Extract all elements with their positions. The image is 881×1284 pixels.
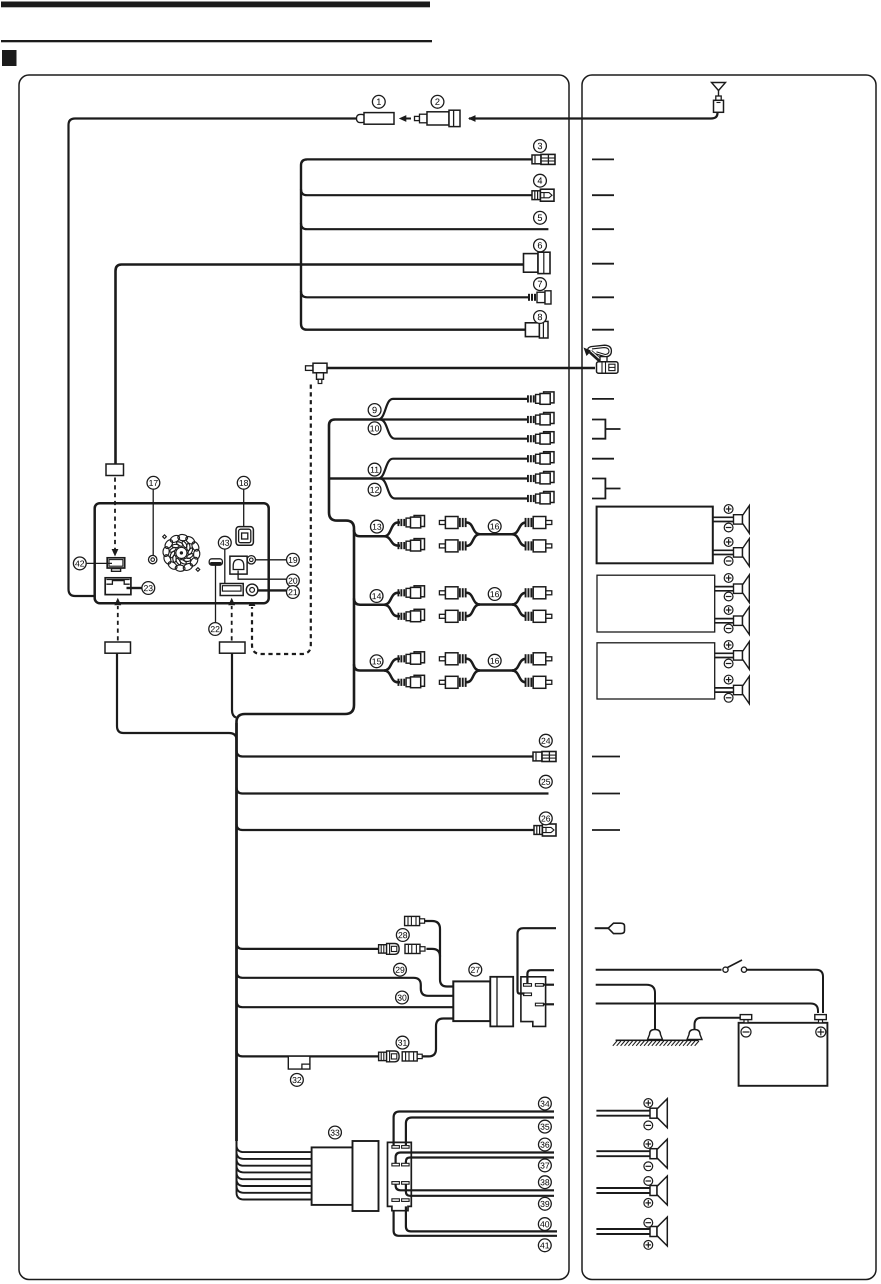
speaker polarity plus [724,574,733,583]
speaker wires [715,586,734,588]
battery [739,1023,828,1086]
connector item 6 [524,252,551,273]
wire item 41 [394,1211,557,1236]
leader 21 [258,589,286,591]
wire to battery pin [543,1003,554,1005]
svg-text:18: 18 [239,478,249,488]
speaker polarity minus [724,659,733,668]
wire item 12 lower [380,479,528,499]
label line (right panel) [592,228,614,230]
speaker wires [596,1150,650,1152]
wire item 14 [354,598,384,604]
svg-text:29: 29 [395,965,405,975]
label circle 1 [372,95,385,108]
title bar (redacted heading) [1,2,430,8]
label circle 43 [218,536,231,549]
svg-text:33: 33 [330,1128,340,1138]
wire item 10 lower [380,420,528,439]
speaker polarity - [644,1121,653,1130]
svg-text:8: 8 [537,312,542,322]
label line (right panel) [592,756,620,758]
speaker polarity + [644,1241,653,1250]
svg-text:40: 40 [540,1219,550,1229]
svg-text:12: 12 [370,485,380,495]
speaker polarity plus [724,675,733,684]
antenna wire to item 2 [469,112,718,118]
label line (right panel) [592,263,614,265]
svg-text:35: 35 [540,1122,550,1132]
label circle 27 [469,963,482,976]
label circle 4 [534,174,547,187]
speaker polarity plus [724,641,733,650]
svg-text:3: 3 [537,141,542,151]
speaker wires [713,549,734,551]
hands-free microphone clip [588,345,612,357]
wire item 28 upper lead [425,921,453,987]
battery negative wire [695,1018,742,1030]
jack 21 (aux input) [246,584,258,596]
label line row 9 [592,398,614,400]
connector item 7 [528,291,551,304]
speaker polarity minus [724,523,733,532]
label circle 19 [287,553,300,566]
label circle 31 [396,1036,409,1049]
section marker square [2,50,17,66]
ISO pin slots [392,1182,400,1185]
dashed arrow into 42 [114,478,116,550]
svg-text:5: 5 [537,213,542,223]
speaker wires [713,516,734,518]
aux extension wire to microphone connector [327,367,595,369]
microphone body [597,357,619,374]
svg-text:6: 6 [537,240,542,250]
svg-text:16: 16 [490,589,500,599]
vehicle ISO mate connector [388,1142,412,1210]
speaker polarity minus [724,557,733,566]
wire item 28 lower [237,943,380,949]
chassis ground strip [616,1039,699,1041]
SD slot 22 [209,559,222,565]
wire item 39 [406,1184,554,1195]
svg-text:20: 20 [288,576,298,586]
speaker polarity + [644,1099,653,1108]
wire from deck to antenna plug 1 [69,119,362,597]
svg-text:14: 14 [372,591,382,601]
wire item 6 (power harness lead) [116,265,525,465]
item 16 RCA extension cable [467,593,527,605]
item 2 antenna adapter plug [415,110,461,126]
svg-text:21: 21 [288,587,298,597]
leader 23 [127,587,142,589]
label circle 34 [539,1097,552,1110]
speaker [650,1176,667,1205]
ground lug 1 [648,1030,663,1040]
wire item 15 [354,664,384,670]
label circle 36 [539,1138,552,1151]
leader 22 [215,565,217,622]
connector 18 (steering remote port) [236,527,253,546]
label circle 28 [396,929,409,942]
battery feed wire [596,1004,818,1014]
speaker polarity - [644,1177,653,1186]
ground lug 2 [687,1030,702,1040]
heading underline [1,40,432,42]
label circle 20 [287,574,300,587]
wire item 13 [354,530,384,536]
label circle 37 [539,1159,552,1172]
svg-text:11: 11 [370,465,379,475]
wire item 36 [396,1153,554,1164]
label circle 14 [370,590,383,603]
wire item 35 [406,1118,554,1146]
pin slots [524,984,532,987]
label circle 16 [488,588,501,601]
speaker [650,1217,667,1246]
bracket rows 10 [592,420,621,439]
antenna feed module (above head unit) [106,464,124,476]
right panel frame [582,75,876,1280]
speaker polarity + [644,1140,653,1149]
label circle 41 [538,1239,551,1252]
wire item 34 [394,1112,554,1146]
leader 42 [87,562,112,564]
label circle 3 [534,140,547,153]
speaker polarity plus [724,538,733,547]
amplifier box 2 [597,575,715,632]
speaker polarity - [644,1162,653,1171]
svg-text:13: 13 [372,522,382,532]
battery minus symbol [741,1027,751,1037]
vehicle harness connector (mate of 27) [521,977,546,1027]
wire switch to battery plus [747,970,823,1013]
main harness trunk [235,723,238,1141]
svg-text:2: 2 [435,97,440,107]
connector item 3 [532,154,555,164]
ISO pin slots [392,1163,400,1166]
svg-text:37: 37 [540,1160,550,1170]
label circle 35 [539,1120,552,1133]
svg-text:24: 24 [541,736,551,746]
label circle 12 [368,483,381,496]
item 16 RCA extension cable [467,659,527,671]
svg-text:30: 30 [397,993,407,1003]
wire item 31 [237,1050,380,1056]
label circle 26 [539,812,552,825]
USB port 43 [220,584,243,596]
ISO connector 33 cap [353,1141,379,1211]
microphone hatched arm [591,352,602,362]
wire item 30 [237,1001,454,1007]
label circle 42 [73,557,86,570]
connector 42 (tuner plug) [107,558,125,572]
wire item 37 [406,1158,554,1164]
svg-text:16: 16 [490,521,500,531]
head unit rear chassis [95,503,269,603]
label circle 7 [534,278,547,291]
switch contacts [723,967,728,972]
rear USB extension module [105,642,131,653]
speaker [650,1099,667,1128]
svg-text:9: 9 [372,405,377,415]
ISO connector 33 body [312,1147,353,1205]
label circle 38 [539,1176,552,1189]
label line (right panel) [592,329,614,331]
dashed arrow into usb port [231,606,233,641]
label circle 25 [539,775,552,788]
speaker [734,607,750,635]
harness trunk for items 3-8 [301,159,526,329]
leader 43 [224,550,226,584]
leader 18 [243,490,245,527]
label circle 24 [539,734,552,747]
switch lever [728,960,743,968]
speaker polarity plus [724,606,733,615]
label circle 15 [370,655,383,668]
accessory tag wire [595,927,609,929]
label circle 10 [368,422,381,435]
wire from usb box down to trunk [232,653,236,718]
screw 19 [247,556,255,564]
wire item 26 [237,824,535,830]
label line (right panel) [592,158,614,160]
label line (right panel) [592,194,614,196]
wire item 9 [335,399,528,420]
speaker wires [715,652,734,654]
label circle 23 [142,582,155,595]
wire item 5 (bare lead) [301,223,548,229]
svg-text:31: 31 [398,1038,408,1048]
svg-text:23: 23 [144,583,154,593]
trunk for items 9-12 [237,420,355,724]
svg-text:22: 22 [210,624,220,634]
connector item 8 [525,321,548,338]
connector item 9 [527,392,554,404]
leader 20 [238,571,286,580]
fuse holder item 32 [288,1056,310,1069]
wire item 11 [329,459,528,479]
connector 23 (antenna jack block) [105,578,131,595]
wire item 38 [396,1184,554,1190]
wire item 4 [301,189,533,195]
speaker polarity minus [724,693,733,702]
svg-text:32: 32 [292,1075,302,1085]
aux 3.5mm right-angle plug [306,363,328,383]
speaker wires [715,687,734,689]
label circle 9 [368,404,381,417]
label circle 33 [329,1126,342,1139]
speaker polarity + [644,1199,653,1208]
left panel frame [19,75,569,1280]
svg-text:27: 27 [471,965,481,975]
battery positive post [815,1015,827,1023]
label circle 13 [371,520,384,533]
svg-text:26: 26 [541,813,551,823]
car antenna symbol [712,83,726,91]
wire item 12 (straight) [329,477,528,479]
label circle 8 [534,311,547,324]
speaker wires [715,618,734,620]
label line row 11 [592,458,614,460]
item 1 antenna socket [357,113,395,125]
ISO pin slots [392,1146,400,1149]
wire item 25 (bare) [237,788,549,794]
wire to chassis ground [596,985,655,1029]
wire to switched power [527,970,554,983]
label circle 6 [534,239,547,252]
power connector item 27 socket [490,977,513,1027]
label circle 18 [237,476,250,489]
label line (right panel) [592,829,620,831]
wire item 29 [237,972,454,996]
svg-text:28: 28 [398,930,408,940]
label circle 40 [538,1218,551,1231]
svg-text:17: 17 [149,478,159,488]
svg-text:38: 38 [540,1177,550,1187]
speaker wires [596,1228,650,1230]
svg-text:10: 10 [370,423,380,433]
speaker [734,676,750,704]
leader 17 [152,490,154,555]
cooling fan [163,534,201,572]
speaker polarity minus [724,592,733,601]
connectors item 15 [398,652,425,664]
label circle 2 [431,95,444,108]
label circle 16 [488,654,501,667]
connector item 4 [532,189,554,201]
power connector item 27 plug [453,981,490,1021]
wire item 7 [301,291,529,297]
usb extension box [220,642,246,653]
ISO pin slots [392,1199,400,1202]
label circle 21 [287,586,300,599]
svg-text:43: 43 [220,538,230,548]
svg-text:19: 19 [288,555,298,565]
svg-text:42: 42 [75,558,85,568]
svg-text:7: 7 [537,279,542,289]
battery plus symbol [816,1027,826,1037]
speaker polarity plus [724,505,733,514]
label circle 39 [539,1197,552,1210]
label circle 16 [488,520,501,533]
speaker polarity - [644,1218,653,1227]
svg-text:41: 41 [540,1240,550,1250]
leader 19 [256,559,287,561]
svg-text:1: 1 [376,97,381,107]
battery negative post [740,1015,752,1023]
label circle 11 [368,463,381,476]
speaker [734,539,750,567]
connectors item 14 [398,586,425,598]
svg-text:15: 15 [372,656,382,666]
label line (right panel) [592,296,614,298]
speaker polarity minus [724,624,733,633]
svg-text:34: 34 [540,1099,550,1109]
svg-text:39: 39 [540,1199,550,1209]
accessory tag [608,923,624,933]
speaker wires [596,1187,650,1189]
speaker [734,642,750,670]
wire item 10 (straight pair lead) [335,418,528,420]
amplifier box 1 [597,507,713,564]
label circle 17 [147,476,160,489]
connector 20 (DIN socket) [230,556,247,574]
harness fan to ISO connector 33 [237,1140,313,1152]
arrow between 1 and 2 [406,118,411,120]
label circle 22 [209,623,222,636]
dashed arrow into 23 [117,606,119,641]
connectors item 13 [398,516,425,528]
speaker [650,1139,667,1168]
label circle 29 [394,963,407,976]
label circle 32 [291,1074,304,1087]
ignition switch wire [596,969,722,971]
wire to accessory tag [518,928,557,993]
screw 17 [149,555,157,563]
label line (right panel) [592,793,620,795]
svg-text:36: 36 [540,1140,550,1150]
wire item 3 [307,158,533,160]
svg-text:4: 4 [537,176,542,186]
label circle 5 [534,211,547,224]
wire from antenna feed down to trunk [117,653,237,740]
wire item 24 [237,750,534,757]
bracket rows 12 [592,479,621,499]
wire to ground pin [543,984,554,986]
item 16 RCA extension cable [467,523,527,535]
wire item 40 [406,1206,557,1231]
svg-text:25: 25 [541,777,551,787]
amplifier box 3 [597,643,715,699]
speaker [734,506,750,534]
antenna plug [716,96,721,101]
dashed route from aux plug to rear jack 21 [252,385,311,655]
speaker wires [596,1110,650,1112]
speaker [734,575,750,603]
label circle 30 [396,991,409,1004]
svg-text:16: 16 [490,656,500,666]
